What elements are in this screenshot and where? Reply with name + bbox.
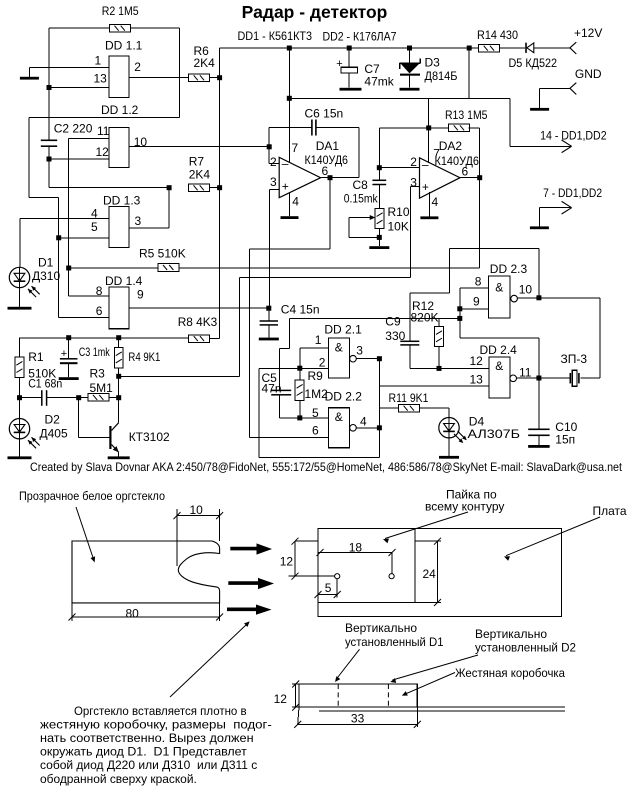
wire VCC vertical left branch [219, 48, 221, 339]
junction outputs 3 [377, 356, 382, 361]
op-amp DA1 [279, 157, 320, 197]
svg-text:13: 13 [94, 71, 108, 85]
svg-text:+: + [336, 58, 342, 70]
resistor R9 [295, 380, 304, 400]
resistor R1 [15, 357, 24, 377]
junction R2/C2 node at pin13 [47, 85, 52, 90]
callout arrow from note to arrows [170, 623, 248, 697]
svg-text:6: 6 [322, 164, 329, 178]
wire R2 left [49, 27, 110, 29]
wire pin11 DD1.2 [69, 138, 109, 140]
terminal 14 - DD1,DD2 [562, 140, 572, 146]
wire DA1 pin7 supply [288, 48, 290, 163]
svg-text:Д310: Д310 [32, 269, 60, 283]
wire R1 top [19, 338, 21, 357]
wire R1 bottom [19, 377, 21, 418]
svg-text:D2: D2 [45, 413, 61, 427]
svg-text:+: + [61, 348, 67, 360]
terminal GND [570, 83, 576, 89]
logic switch DD1.2 [109, 128, 129, 168]
junction rail/R14 branch [467, 46, 472, 51]
ground D4 [448, 438, 450, 456]
svg-text:установленный D2: установленный D2 [475, 641, 576, 655]
logic switch DD1.4 [109, 287, 129, 329]
svg-text:DD2 - К176ЛА7: DD2 - К176ЛА7 [323, 30, 397, 44]
wire R11 left [379, 407, 398, 409]
svg-text:5M1: 5M1 [90, 381, 114, 395]
wire R2 loop to DD1.3 inputs [29, 117, 180, 119]
svg-text:DD 2.1: DD 2.1 [324, 322, 362, 336]
svg-text:Вертикально: Вертикально [345, 621, 417, 635]
svg-text:R11 9K1: R11 9K1 [389, 391, 429, 405]
svg-text:DD 1.1: DD 1.1 [105, 39, 143, 53]
junction pin11 [536, 376, 541, 381]
junction DA1 output [328, 175, 333, 180]
svg-text:0.15mk: 0.15mk [344, 192, 379, 206]
svg-text:R3: R3 [90, 367, 106, 381]
plate inner vertical [414, 529, 416, 603]
junction DA1 pin2 [267, 144, 272, 149]
svg-text:3: 3 [410, 175, 417, 189]
svg-text:9: 9 [137, 288, 144, 302]
wire pin6 DD1.4 [59, 317, 109, 319]
svg-text:Оргстекло вставляется плотно в: Оргстекло вставляется плотно в [74, 704, 247, 718]
svg-text:1: 1 [95, 53, 102, 67]
svg-text:3: 3 [135, 214, 142, 228]
capacitor C9 [400, 341, 419, 343]
svg-text:DA1: DA1 [316, 139, 340, 153]
wire pin3 DD1.3 output [129, 227, 169, 229]
wire collector node to DD2 area [119, 375, 240, 377]
dimension 24 [415, 540, 441, 542]
resistor R13 [449, 124, 470, 132]
capacitor C1 [41, 390, 43, 406]
svg-text:R2 1M5: R2 1M5 [102, 4, 139, 18]
wire C8 to R10 [378, 185, 380, 209]
dimension 5 [336, 579, 338, 598]
wire R14 to D5 [500, 47, 526, 49]
wire DA2 pin4 ground [428, 192, 430, 217]
diode D5 [525, 43, 527, 53]
svg-text:ободранной сверху краской.: ободранной сверху краской. [40, 772, 197, 786]
svg-text:10: 10 [190, 503, 204, 517]
svg-text:R5 510K: R5 510K [139, 247, 186, 261]
svg-text:–: – [422, 157, 429, 171]
svg-text:АЛ307Б: АЛ307Б [468, 427, 521, 441]
PCB plate rectangle [318, 529, 562, 617]
svg-text:Д814Б: Д814Б [425, 69, 458, 83]
junction C3 top [66, 335, 71, 340]
svg-text:Created by Slava Dovnar AKA 2:: Created by Slava Dovnar AKA 2:450/78@Fid… [30, 461, 623, 474]
svg-text:DA2: DA2 [439, 139, 463, 153]
resistor R10 potentiometer [375, 208, 384, 228]
svg-text:6: 6 [462, 164, 469, 178]
svg-text:80: 80 [126, 607, 140, 621]
svg-text:10K: 10K [388, 220, 409, 234]
svg-text:&: & [335, 340, 343, 354]
svg-text:7: 7 [292, 141, 299, 155]
svg-text:установленный D1: установленный D1 [345, 635, 444, 649]
wire R7 right to VCC line [209, 187, 219, 189]
hole left [335, 574, 340, 579]
resistor R6 [189, 74, 210, 82]
dashed diode D1 position [337, 684, 339, 707]
junction R9 bottom [297, 415, 302, 420]
junction R7/VCC [217, 185, 222, 190]
svg-text:Жестяная коробочка: Жестяная коробочка [455, 666, 565, 680]
svg-text:24: 24 [423, 567, 437, 581]
wire R8 right to VCC vertical [210, 338, 220, 340]
svg-text:D1: D1 [38, 255, 54, 269]
capacitor C5 [271, 390, 291, 392]
wire C4 top [268, 308, 270, 321]
svg-text:C2 220: C2 220 [54, 122, 93, 136]
dimension 10 [176, 509, 178, 566]
resistor R11 [399, 404, 420, 412]
wire R12 bottom stem [438, 347, 440, 369]
svg-text:14 - DD1,DD2: 14 - DD1,DD2 [540, 129, 607, 143]
wire DA2 pin7 supply [428, 98, 430, 163]
svg-text:8: 8 [96, 284, 103, 298]
hole right [389, 574, 394, 579]
svg-text:К140УД6: К140УД6 [435, 154, 480, 168]
wire pin11 output [517, 377, 539, 379]
junction DA2 output [477, 175, 482, 180]
resistor R2 [110, 24, 131, 32]
wire pin4 output [356, 427, 379, 429]
dimension 18 [318, 552, 392, 554]
svg-text:DD 2.2: DD 2.2 [325, 390, 363, 404]
ground Q1 emitter [108, 456, 130, 459]
wire DA1 output detour to DD2.2 [329, 178, 331, 249]
ground DA1 [281, 216, 299, 219]
wire VCC branch down [468, 48, 470, 98]
junction C2/pin12 [47, 157, 52, 162]
wire DA2 output feedback [479, 178, 481, 269]
tin box rectangle [299, 684, 417, 707]
junction R3 right [116, 395, 121, 400]
svg-text:C6 15n: C6 15n [305, 107, 344, 121]
wire R2 right loop [130, 27, 179, 29]
junction C8/DA2 pin2 [377, 165, 382, 170]
wire pin9 DD2.3 [460, 308, 489, 310]
junction rail/C7 [347, 46, 352, 51]
wire pin1 DD2.1 [300, 347, 329, 349]
svg-text:–: – [282, 156, 289, 170]
wire C5 bottom [278, 395, 280, 418]
wire C1 right to R3 [47, 397, 88, 399]
wire pin2 DD1.1 to R6 [129, 77, 189, 79]
transfer arrow 1 [230, 543, 272, 554]
junction R6/VCC [217, 75, 222, 80]
wire R3 right [110, 397, 119, 399]
gate DD2.4 [489, 357, 510, 398]
transfer arrow 2 [228, 578, 274, 589]
resistor R4 [114, 347, 123, 367]
wire DA1 pin2 input [269, 163, 279, 165]
callout arrow soldering [385, 512, 468, 539]
wire R13 left [429, 127, 449, 129]
svg-text:2: 2 [410, 155, 417, 169]
junction rail/DA1 supply [287, 46, 292, 51]
terminal 7 - DD1,DD2 [562, 201, 572, 207]
callout arrow plata [506, 517, 600, 556]
svg-text:5: 5 [91, 220, 98, 234]
svg-text:2: 2 [270, 155, 277, 169]
capacitor C7 electrolytic [348, 48, 350, 67]
wire C9 bottom to pin12 [409, 345, 411, 369]
dimension 33 [298, 707, 299, 724]
junction R12 bottom [437, 366, 442, 371]
svg-text:Прозрачное белое оргстекло: Прозрачное белое оргстекло [19, 489, 165, 503]
wire VCC rail [220, 47, 479, 49]
dimension 12 plate [295, 540, 318, 542]
wire pin12 node down to R7 [48, 159, 50, 188]
junction VCC horizontal [287, 96, 292, 101]
wire C9 top path from pin10 node [538, 249, 540, 298]
svg-text:C9: C9 [385, 314, 401, 328]
svg-text:2: 2 [134, 60, 141, 74]
wire C2 bottom to pin12 [48, 146, 50, 159]
transfer arrow 3 [227, 605, 272, 615]
svg-text:13: 13 [470, 373, 484, 387]
svg-text:всему контуру: всему контуру [425, 500, 504, 514]
svg-text:R1: R1 [28, 350, 44, 364]
svg-text:18: 18 [349, 540, 363, 554]
plate inner horizontal [318, 602, 415, 604]
junction R1/C1 [17, 395, 22, 400]
junction rail/D3 [407, 46, 412, 51]
wire DA1 output [321, 177, 360, 179]
wire output tie vertical [378, 359, 380, 458]
callout arrow D1 [336, 649, 360, 679]
wire DA2 pin3 input [410, 186, 419, 188]
junction R7 left [167, 185, 172, 190]
wire R5 right long to DA2 pin3 node [179, 267, 480, 269]
wire inputs to pin11 node [460, 337, 539, 339]
gate DD2.1 [329, 338, 350, 378]
wire pin13 DD2.4 from outputs [379, 385, 489, 387]
zener diode D3 [409, 48, 411, 63]
svg-text:12: 12 [280, 554, 294, 568]
junction outputs 4 [377, 425, 382, 430]
svg-text:4: 4 [292, 195, 299, 209]
logic switch DD1.1 [109, 56, 129, 98]
svg-text:10: 10 [519, 283, 533, 297]
junction pins 8-9 [457, 306, 462, 311]
LED D4 [439, 418, 459, 438]
wire DA2 pin2 input [379, 167, 419, 169]
capacitor C3 electrolytic [68, 338, 70, 359]
wire D5 to +12V [534, 47, 570, 49]
resistor R12 [435, 326, 444, 346]
capacitor C6 [269, 127, 312, 129]
resistor R7 [189, 184, 210, 192]
wire C10 bottom [538, 435, 540, 445]
svg-text:33: 33 [351, 712, 365, 726]
wire R4 top stub [118, 338, 120, 348]
svg-text:R7: R7 [189, 154, 205, 168]
svg-text:Радар - детектор: Радар - детектор [242, 2, 388, 22]
junction R12/DD2.3 inputs [457, 316, 462, 321]
wire pin5 DD1.3 [59, 237, 109, 239]
svg-text:2: 2 [319, 355, 326, 369]
svg-text:DD1 - К561КТ3: DD1 - К561КТ3 [238, 29, 313, 43]
svg-text:12: 12 [274, 692, 288, 706]
wire R12 top [438, 318, 440, 326]
svg-text:DD 2.4: DD 2.4 [480, 343, 518, 357]
wire pin7 terminal [539, 207, 571, 209]
ground C10 [528, 445, 550, 448]
svg-text:6: 6 [96, 304, 103, 318]
svg-text:C3 1mk: C3 1mk [79, 345, 111, 359]
ground D3 [400, 88, 420, 91]
svg-text:R10: R10 [388, 205, 410, 219]
wire DA1 pin3 input [269, 189, 279, 191]
wire R10 bottom [378, 229, 380, 247]
svg-text:3: 3 [356, 344, 363, 358]
wire C6 right down to output [358, 128, 360, 178]
svg-text:11: 11 [97, 124, 110, 138]
wire pin10 output [517, 297, 600, 299]
junction C4/pin9/pin3 [266, 306, 271, 311]
wire R6 right to VCC line [210, 77, 220, 79]
wiper arrow R10 [349, 217, 374, 219]
wire pin1 DD1.1 to ground [29, 67, 109, 69]
wire R13 right to output [469, 127, 480, 129]
wire R8 left to bias rail [20, 337, 189, 339]
wire supply to pin14 terminal [509, 98, 511, 146]
svg-text:12: 12 [470, 354, 484, 368]
svg-text:C1 68n: C1 68n [28, 377, 62, 391]
svg-text:+: + [282, 180, 289, 194]
junction R9 top [297, 366, 302, 371]
svg-text:1: 1 [315, 333, 322, 347]
svg-text:жестяную коробочку, размеры п: жестяную коробочку, размеры подог- [40, 717, 272, 731]
resistor R14 [479, 44, 500, 52]
svg-text:2K4: 2K4 [189, 168, 211, 182]
resistor R5 [158, 264, 179, 272]
svg-text:нать соответственно. Вырез дол: нать соответственно. Вырез должен [40, 731, 254, 745]
svg-text:КТ3102: КТ3102 [129, 430, 170, 444]
svg-text:12: 12 [96, 145, 110, 159]
wire pin8 DD1.4 [69, 295, 109, 297]
svg-text:47mk: 47mk [364, 74, 394, 88]
wire pin8 DD2.3 [460, 287, 489, 289]
junction R10 bottom [377, 235, 382, 240]
svg-text:3: 3 [270, 175, 277, 189]
wire feedback bottom loop [259, 456, 379, 458]
svg-text:7 - DD1,DD2: 7 - DD1,DD2 [543, 186, 602, 200]
svg-text:Плата: Плата [593, 504, 627, 518]
wire pin6 DD2.2 from DA1 [250, 437, 329, 439]
wire DA2 output [460, 177, 480, 179]
dimension 80 [71, 603, 73, 621]
svg-text:R4 9K1: R4 9K1 [128, 350, 160, 364]
svg-text:DD 1.3: DD 1.3 [103, 193, 141, 207]
svg-text:DD 1.4: DD 1.4 [105, 274, 143, 288]
ground C3 [68, 364, 70, 377]
op-amp DA2 [420, 158, 461, 198]
wire pin10 DD1.2 to DA1 [129, 146, 269, 148]
dimension 12 box [292, 683, 299, 685]
wire R10 wiper loop [348, 218, 350, 238]
svg-text:9: 9 [473, 295, 480, 309]
svg-text:+: + [422, 180, 429, 194]
ground C4 [259, 338, 279, 341]
dashed diode D2 position [387, 684, 389, 707]
wire pin11 to buzzer left [539, 377, 570, 379]
terminal +12V [570, 42, 576, 48]
wire pin2 loop down [258, 368, 260, 457]
junction pin10 [536, 295, 541, 300]
svg-text:+12V: +12V [574, 26, 602, 40]
svg-text:47n: 47n [262, 382, 282, 396]
wire C4 bottom [268, 325, 270, 338]
svg-text:C8: C8 [353, 178, 369, 192]
wire R5 left [69, 267, 158, 269]
wire pin13 DD1.1 [49, 87, 109, 89]
capacitor C8 [379, 127, 428, 129]
svg-text:DD 2.3: DD 2.3 [490, 262, 528, 276]
ground pin1 DD1.1 [20, 77, 39, 80]
svg-text:5: 5 [325, 581, 332, 595]
junction R13 left/C8 [426, 125, 431, 130]
junction R5/pin11 node [66, 266, 71, 271]
wire C6 left down [268, 128, 270, 164]
svg-text:&: & [335, 410, 343, 424]
svg-text:330: 330 [385, 329, 405, 343]
resistor R8 [189, 335, 210, 343]
svg-text:5: 5 [312, 406, 319, 420]
svg-text:DD 1.2: DD 1.2 [101, 103, 139, 117]
svg-text:GND: GND [575, 67, 602, 81]
callout arrow plexiglass [76, 507, 94, 560]
svg-text:C4 15n: C4 15n [281, 302, 320, 316]
svg-text:ЗП-3: ЗП-3 [561, 352, 588, 366]
svg-text:R8 4K3: R8 4K3 [178, 315, 218, 329]
svg-text:окружать диод D1. D1 Представ: окружать диод D1. D1 Представлет [40, 745, 247, 759]
svg-text:&: & [495, 280, 503, 294]
gate DD2.2 [329, 408, 350, 448]
wire pin9 DD1.4 output to C4 node [129, 307, 269, 309]
ground C7 [340, 88, 362, 91]
svg-text:2K4: 2K4 [194, 56, 216, 70]
photodiode D2 [9, 419, 29, 439]
junction C1/R3/base [76, 395, 81, 400]
callout arrow tin box [404, 673, 455, 695]
svg-text:15п: 15п [555, 432, 575, 446]
svg-text:D5 КД522: D5 КД522 [509, 56, 558, 70]
wire C5 top net from DD2.3 inputs [289, 318, 291, 348]
svg-text:&: & [495, 359, 503, 373]
logic switch DD1.3 [109, 207, 129, 248]
svg-text:8: 8 [475, 274, 482, 288]
svg-text:4: 4 [432, 195, 439, 209]
resistor R3 [88, 394, 109, 402]
svg-text:D3: D3 [425, 56, 441, 70]
ground D2 [19, 439, 21, 457]
wire GND terminal [540, 87, 570, 89]
piezo buzzer ZP-3 [570, 373, 572, 383]
capacitor C2 [41, 140, 57, 142]
ground R10 [369, 246, 389, 249]
svg-text:Вертикально: Вертикально [475, 627, 547, 641]
wire C1 left [20, 397, 42, 399]
wire pin4 DD1.3 to D1 [20, 218, 109, 220]
wire pin10 to buzzer right [599, 298, 601, 378]
plexiglass plate outline [72, 541, 220, 603]
